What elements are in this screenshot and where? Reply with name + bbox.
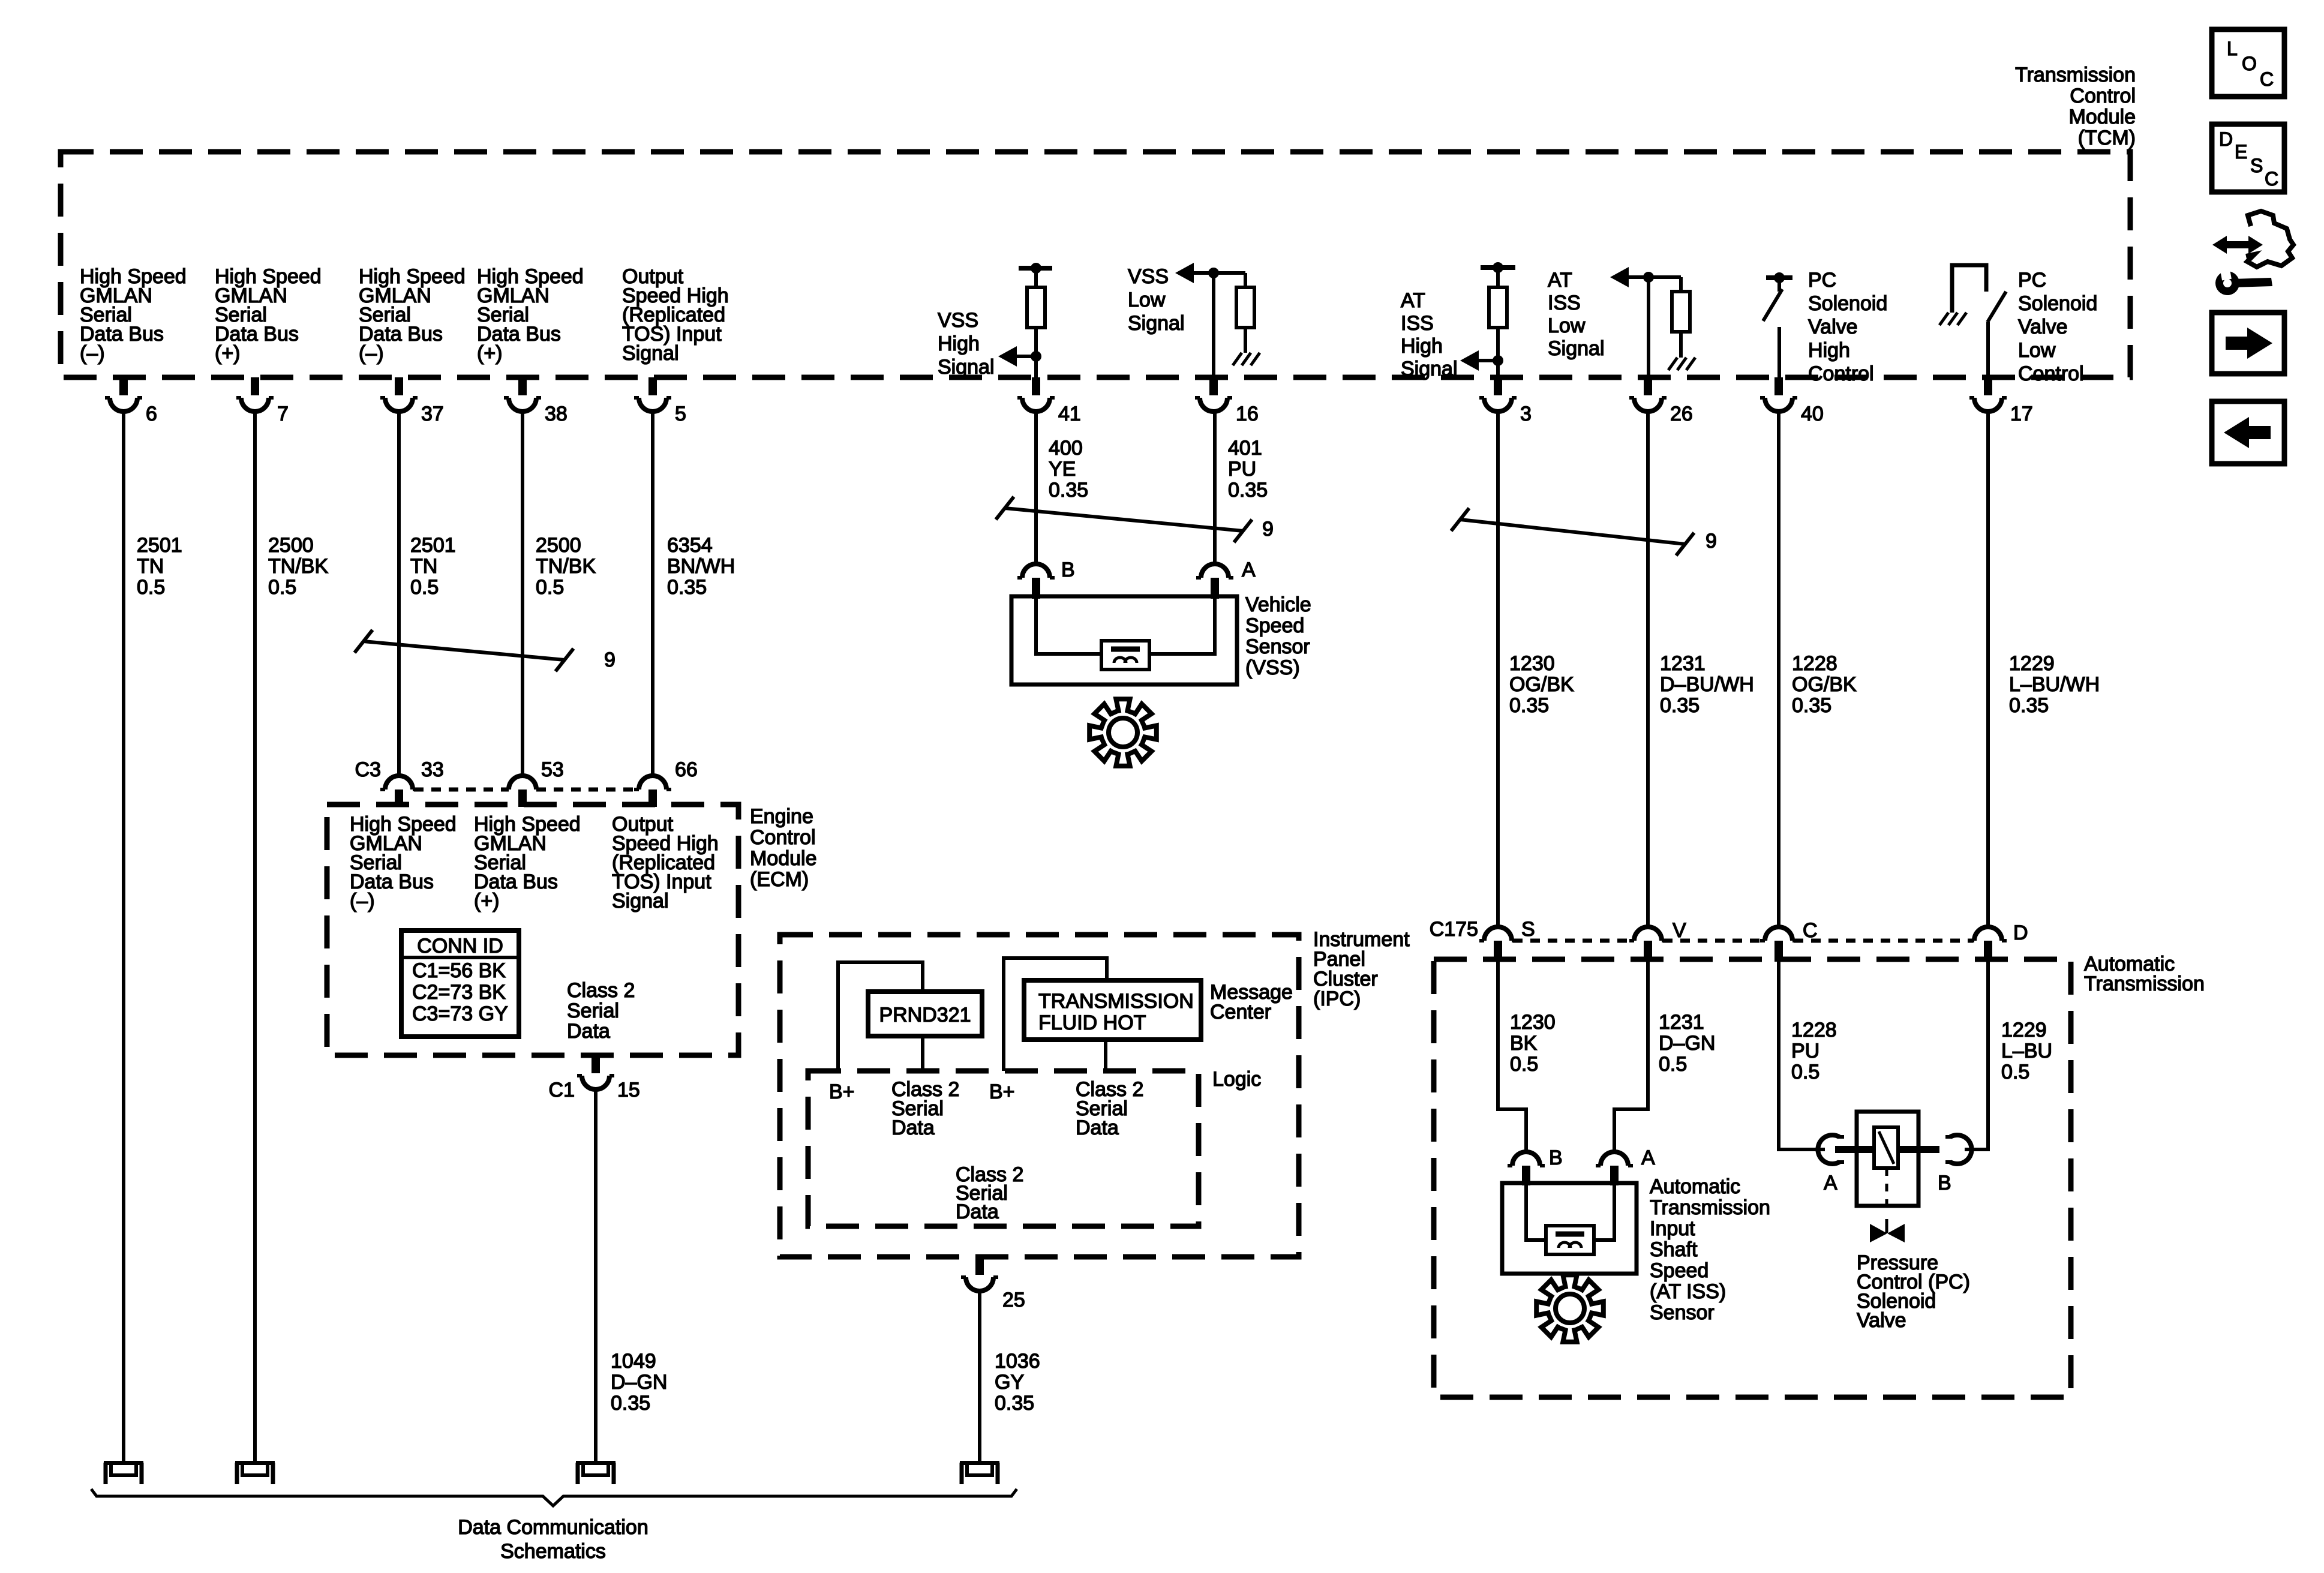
svg-text:ISS: ISS <box>1401 312 1434 335</box>
svg-text:CONN ID: CONN ID <box>417 935 503 957</box>
AT ISS sensor box <box>1502 1183 1637 1274</box>
svg-text:High: High <box>1808 339 1850 362</box>
switch blade (PC high driver) <box>1763 278 1782 321</box>
svg-text:Transmission: Transmission <box>2015 64 2136 86</box>
label: Transmission Control Module (TCM) <box>2015 64 2136 149</box>
svg-text:(+): (+) <box>474 890 500 912</box>
ground strap (PC low driver) <box>1952 265 1986 313</box>
resistor (AT ISS high) <box>1489 287 1507 328</box>
ECM connector 53 <box>504 758 564 807</box>
crossover mark 9 (AT ISS pair) <box>1451 508 1717 556</box>
svg-text:VSS: VSS <box>1128 265 1169 288</box>
TCM pin 17 connector <box>1969 377 2033 425</box>
right arrow legend box <box>2212 313 2284 374</box>
svg-text:16: 16 <box>1236 403 1259 425</box>
label: Pressure Control (PC) Solenoid Valve <box>1857 1251 1970 1332</box>
svg-text:Module: Module <box>2068 106 2136 128</box>
transmission control module (TCM) dashed box <box>61 152 2130 377</box>
wire 400 YE (pin 41 to VSS B) <box>1034 412 1038 564</box>
svg-text:1049: 1049 <box>611 1350 656 1373</box>
svg-text:2501: 2501 <box>410 534 456 557</box>
wire: message center to logic <box>1104 1040 1107 1071</box>
ECM connector 66 <box>634 758 698 807</box>
C175 connector C <box>1760 919 1818 962</box>
svg-text:Speed: Speed <box>1650 1259 1709 1282</box>
svg-text:PU: PU <box>1791 1040 1819 1062</box>
ECM connector C1 pin 15 <box>549 1055 640 1101</box>
svg-text:Transmission: Transmission <box>1650 1196 1770 1219</box>
svg-text:(TCM): (TCM) <box>2078 127 2136 149</box>
wire 1049 D-GN (ECM 15 to splice) <box>594 1089 597 1461</box>
TCM pin 40 connector <box>1760 377 1824 425</box>
TCM pin 41 connector <box>1017 377 1081 425</box>
label: wire 401 PU 0.35 <box>1228 437 1268 502</box>
TCM pin 3 connector <box>1479 377 1532 425</box>
svg-text:6354: 6354 <box>667 534 713 557</box>
svg-text:9: 9 <box>604 649 615 671</box>
gear icon (VSS reluctor) <box>1089 699 1157 766</box>
wire 1230 BK (S to AT ISS B) <box>1498 959 1526 1152</box>
svg-text:0.35: 0.35 <box>1660 694 1700 717</box>
svg-text:1230: 1230 <box>1510 1011 1556 1034</box>
svg-text:Signal: Signal <box>612 890 669 912</box>
svg-text:(–): (–) <box>80 342 105 365</box>
svg-text:OG/BK: OG/BK <box>1792 673 1857 696</box>
svg-text:TN: TN <box>410 555 437 578</box>
svg-text:Control: Control <box>2018 362 2084 385</box>
label: wire 1231 D-GN 0.5 <box>1659 1011 1715 1076</box>
svg-text:PC: PC <box>2018 269 2046 292</box>
svg-text:Data: Data <box>1076 1116 1119 1139</box>
automatic transmission dashed box <box>1434 959 2071 1397</box>
C175 connector S <box>1479 918 1535 962</box>
svg-text:B: B <box>1549 1146 1563 1169</box>
svg-text:2500: 2500 <box>536 534 581 557</box>
svg-text:1231: 1231 <box>1659 1011 1704 1034</box>
wire: PRND321 to logic <box>921 1036 924 1071</box>
label: Automatic Transmission Input Shaft Speed (AT ISS) Sensor <box>1650 1175 1770 1324</box>
label: B+ (message center) <box>989 1080 1015 1103</box>
off-page terminal (wire 1036) <box>960 1461 999 1484</box>
label: Logic <box>1212 1068 1261 1091</box>
resistor (VSS low) <box>1236 287 1254 328</box>
svg-text:0.5: 0.5 <box>536 576 564 599</box>
arrow: AT ISS Low Signal <box>1610 267 1681 287</box>
label: Class 2 Serial Data (ECM) <box>567 979 635 1043</box>
svg-text:TRANSMISSION: TRANSMISSION <box>1038 990 1194 1013</box>
svg-text:C1: C1 <box>549 1079 575 1101</box>
node: VSS high internal terminal bar <box>1019 263 1052 274</box>
label: wire 2501 TN 0.5 (b) <box>410 534 456 599</box>
C175 connector V <box>1629 919 1686 962</box>
node: VSS high junction dot <box>1031 351 1041 362</box>
svg-text:0.5: 0.5 <box>1791 1061 1819 1083</box>
svg-text:A: A <box>1242 559 1256 581</box>
svg-text:TN/BK: TN/BK <box>536 555 596 578</box>
svg-text:Signal: Signal <box>1128 312 1185 335</box>
svg-text:Low: Low <box>1548 314 1586 337</box>
svg-text:C1=56 BK: C1=56 BK <box>412 959 506 982</box>
wire: resistor to ground <box>1244 328 1247 353</box>
label: High Speed GMLAN Serial Data Bus (-) (ECM) <box>350 813 457 912</box>
svg-text:Data: Data <box>956 1200 999 1223</box>
label: VSS Low Signal <box>1128 265 1185 335</box>
svg-text:D–GN: D–GN <box>611 1371 667 1394</box>
resistor (AT ISS low) <box>1672 292 1690 332</box>
svg-text:0.35: 0.35 <box>1792 694 1831 717</box>
svg-text:41: 41 <box>1058 403 1081 425</box>
label: Class 2 Serial Data (logic) <box>956 1163 1023 1223</box>
label: C3 <box>355 758 381 781</box>
svg-text:BK: BK <box>1510 1032 1538 1055</box>
wire 1229 L-BU/WH (pin 17 to C175 D) <box>1986 412 1990 927</box>
svg-text:401: 401 <box>1228 437 1262 460</box>
wire: junction to pin 3 <box>1496 361 1500 377</box>
svg-text:D: D <box>2219 128 2233 150</box>
svg-text:L–BU/WH: L–BU/WH <box>2009 673 2100 696</box>
C175 connector D <box>1969 921 2028 962</box>
label: Class 2 Serial Data (PRND321) <box>891 1078 959 1139</box>
svg-text:66: 66 <box>675 758 698 781</box>
svg-text:3: 3 <box>1520 403 1532 425</box>
svg-text:C3=73 GY: C3=73 GY <box>412 1002 508 1025</box>
svg-text:0.35: 0.35 <box>2009 694 2049 717</box>
svg-text:TN: TN <box>137 555 164 578</box>
svg-text:D–BU/WH: D–BU/WH <box>1660 673 1754 696</box>
svg-text:0.35: 0.35 <box>1509 694 1549 717</box>
label: VSS High Signal <box>938 309 995 379</box>
svg-text:(VSS): (VSS) <box>1245 656 1300 679</box>
TRANSMISSION FLUID HOT display box <box>1024 980 1201 1040</box>
svg-text:L: L <box>2227 38 2238 59</box>
svg-text:PRND321: PRND321 <box>879 1004 971 1026</box>
svg-text:GY: GY <box>995 1371 1024 1394</box>
connector A (VSS) <box>1196 559 1256 599</box>
IPC logic dashed box <box>808 1071 1199 1226</box>
svg-text:1228: 1228 <box>1791 1019 1837 1041</box>
label: B+ (PRND321) <box>829 1080 855 1103</box>
svg-text:OG/BK: OG/BK <box>1509 673 1574 696</box>
label: High Speed GMLAN Serial Data Bus (–) (TCM) <box>359 265 466 365</box>
TCM pin 26 connector <box>1629 377 1693 425</box>
PC solenoid coil element <box>1874 1127 1898 1168</box>
TCM pin 6 connector <box>105 377 157 425</box>
label: High Speed GMLAN Serial Data Bus (+) (TCM) <box>215 265 322 365</box>
svg-text:1229: 1229 <box>2009 652 2055 675</box>
svg-text:AT: AT <box>1401 289 1425 312</box>
svg-text:1036: 1036 <box>995 1350 1040 1373</box>
wire: B+ riser to PRND321 <box>838 962 923 1071</box>
svg-text:VSS: VSS <box>938 309 978 332</box>
DESC legend box <box>2212 124 2284 192</box>
svg-text:53: 53 <box>541 758 564 781</box>
wire 1231 D-GN (V to AT ISS A) <box>1614 959 1648 1152</box>
svg-text:E: E <box>2235 141 2247 163</box>
svg-text:D: D <box>2013 921 2028 944</box>
TCM pin 16 connector <box>1195 377 1259 425</box>
svg-text:Speed: Speed <box>1245 614 1304 637</box>
PRND321 display box <box>868 992 982 1036</box>
svg-text:C175: C175 <box>1430 918 1478 941</box>
LOC legend box <box>2212 29 2284 97</box>
svg-text:9: 9 <box>1706 530 1717 553</box>
arrow: VSS Low Signal <box>1175 263 1245 283</box>
svg-text:0.5: 0.5 <box>1659 1053 1687 1076</box>
svg-text:1230: 1230 <box>1509 652 1555 675</box>
PC solenoid actuator dashed link <box>1885 1168 1888 1213</box>
wire 1228 OG/BK (pin 40 to C175 C) <box>1777 412 1780 927</box>
svg-text:Class 2: Class 2 <box>567 979 635 1002</box>
wire: resistor to ground <box>1679 332 1683 358</box>
svg-text:A: A <box>1824 1172 1837 1194</box>
svg-text:0.5: 0.5 <box>1510 1053 1538 1076</box>
svg-text:Low: Low <box>1128 289 1166 311</box>
label: Vehicle Speed Sensor (VSS) <box>1245 593 1311 679</box>
svg-text:Data: Data <box>567 1020 610 1043</box>
svg-text:0.35: 0.35 <box>995 1392 1034 1415</box>
label: wire 1230 BK 0.5 <box>1510 1011 1556 1076</box>
connector A (AT ISS) <box>1596 1146 1655 1185</box>
service information icon (arrows, connector, wrench) <box>2212 211 2293 297</box>
wire: resistor to junction <box>1496 328 1500 361</box>
ground (VSS low) <box>1233 353 1260 365</box>
svg-text:0.35: 0.35 <box>1228 479 1268 502</box>
svg-text:(+): (+) <box>215 342 241 365</box>
svg-text:B+: B+ <box>989 1080 1015 1103</box>
node: AT ISS high junction dot <box>1493 355 1503 366</box>
resistor (VSS high pull-up) <box>1027 287 1045 328</box>
svg-text:Sensor: Sensor <box>1650 1301 1715 1324</box>
PC solenoid valve box <box>1857 1112 1918 1206</box>
node: PC high terminal bar <box>1766 272 1792 283</box>
svg-text:Signal: Signal <box>938 356 995 379</box>
svg-text:Module: Module <box>750 847 817 870</box>
label: wire 2501 TN 0.5 <box>137 534 182 599</box>
label: Data Communication Schematics <box>458 1516 648 1563</box>
svg-text:0.35: 0.35 <box>667 576 707 599</box>
svg-text:37: 37 <box>421 403 444 425</box>
svg-text:PC: PC <box>1808 269 1836 292</box>
label: AT ISS Low Signal <box>1548 269 1605 360</box>
svg-text:Transmission: Transmission <box>2084 972 2205 995</box>
brace: data communication schematics <box>91 1489 1017 1506</box>
connector B (VSS) <box>1017 559 1075 599</box>
svg-text:Shaft: Shaft <box>1650 1238 1698 1261</box>
wire: bar to resistor <box>1496 268 1500 287</box>
label: wire 1229 L-BU 0.5 <box>2001 1019 2052 1083</box>
ground (AT ISS low) <box>1668 358 1695 370</box>
wire 2501 TN (pin 6) <box>122 412 125 1461</box>
TCM pin 38 connector <box>504 377 568 425</box>
svg-text:C: C <box>2265 168 2278 190</box>
label: High Speed GMLAN Serial Data Bus (–) (TCM) <box>80 265 187 365</box>
svg-text:6: 6 <box>146 403 157 425</box>
svg-text:(AT ISS): (AT ISS) <box>1650 1280 1726 1303</box>
wire: to AT ISS low resistor <box>1679 277 1683 292</box>
svg-text:Control: Control <box>750 826 816 849</box>
vehicle speed sensor (VSS) box <box>1011 596 1237 685</box>
svg-text:C2=73 BK: C2=73 BK <box>412 981 506 1004</box>
wire: VSS low to pin 16 <box>1212 273 1215 377</box>
svg-text:40: 40 <box>1801 403 1824 425</box>
label: wire 6354 BN/WH 0.35 <box>667 534 735 599</box>
svg-text:15: 15 <box>617 1079 640 1101</box>
svg-text:Logic: Logic <box>1212 1068 1261 1091</box>
off-page terminal (wire 2501) <box>104 1461 143 1484</box>
svg-text:Signal: Signal <box>1548 337 1605 360</box>
wire 2501 TN (pin 37 to ECM 33) <box>397 412 401 776</box>
label: AT ISS High Signal <box>1401 289 1458 380</box>
wire: PC high to pin 40 <box>1777 327 1781 377</box>
label: PC Solenoid Valve High Control <box>1808 269 1887 385</box>
TCM pin 37 connector <box>380 377 444 425</box>
IPC connector pin 25 <box>961 1257 1025 1311</box>
wire 401 PU (pin 16 to VSS A) <box>1213 412 1217 564</box>
node: AT ISS high terminal bar <box>1481 262 1515 273</box>
svg-text:Valve: Valve <box>1857 1309 1906 1332</box>
svg-text:B+: B+ <box>829 1080 855 1103</box>
wire: resistor to junction <box>1034 328 1038 356</box>
TCM pin 5 connector <box>634 377 686 425</box>
engine control module (ECM) dashed box <box>327 804 738 1055</box>
svg-text:Engine: Engine <box>750 805 813 828</box>
VSS internal winding wires <box>1036 596 1215 654</box>
svg-text:(IPC): (IPC) <box>1313 987 1361 1010</box>
svg-text:Control: Control <box>1808 362 1874 385</box>
switch blade (PC low driver) <box>1987 292 2006 322</box>
label: wire 1228 OG/BK 0.35 <box>1792 652 1857 717</box>
wire 2500 TN/BK (pin 7) <box>253 412 257 1461</box>
label: Engine Control Module (ECM) <box>750 805 817 891</box>
svg-text:1231: 1231 <box>1660 652 1706 675</box>
label: PC Solenoid Valve Low Control <box>2018 269 2097 385</box>
connector A (PC solenoid) <box>1818 1135 1844 1194</box>
crossover mark 9 (VSS pair) <box>996 497 1274 542</box>
label: wire 2500 TN/BK 0.5 <box>268 534 328 599</box>
svg-text:Solenoid: Solenoid <box>1808 292 1887 315</box>
svg-text:B: B <box>1061 559 1075 581</box>
svg-text:Serial: Serial <box>567 999 619 1022</box>
svg-text:0.5: 0.5 <box>2001 1061 2029 1083</box>
svg-text:Data Communication: Data Communication <box>458 1516 648 1539</box>
svg-text:Low: Low <box>2018 339 2056 362</box>
AT ISS pickup coil <box>1546 1226 1594 1254</box>
node: AT ISS low junction dot <box>1643 272 1654 283</box>
label: wire 1049 D-GN 0.35 <box>611 1350 667 1415</box>
label: Output Speed High (Replicated TOS) Input Signal (ECM) <box>612 813 719 912</box>
svg-text:FLUID HOT: FLUID HOT <box>1038 1011 1146 1034</box>
svg-text:(–): (–) <box>350 890 375 912</box>
left arrow legend box <box>2212 401 2284 464</box>
svg-text:2501: 2501 <box>137 534 182 557</box>
svg-text:400: 400 <box>1049 437 1083 460</box>
svg-text:(–): (–) <box>359 342 384 365</box>
svg-text:Valve: Valve <box>2018 316 2068 338</box>
arrow: VSS High Signal <box>998 346 1036 367</box>
svg-text:0.5: 0.5 <box>268 576 296 599</box>
wire 1231 D-BU/WH (pin 26 to C175 V) <box>1646 412 1650 927</box>
label: wire 1229 L-BU/WH 0.35 <box>2009 652 2100 717</box>
AT ISS internal winding wires <box>1526 1183 1614 1240</box>
svg-text:PU: PU <box>1228 458 1256 481</box>
TCM pin 7 connector <box>236 377 289 425</box>
wire 2500 TN/BK (pin 38 to ECM 53) <box>521 412 524 776</box>
svg-text:S: S <box>2250 155 2263 176</box>
label: Message Center <box>1210 981 1293 1023</box>
svg-text:YE: YE <box>1049 458 1076 481</box>
svg-text:7: 7 <box>277 403 289 425</box>
connector B (PC solenoid) <box>1938 1135 1972 1194</box>
valve symbol <box>1870 1219 1905 1242</box>
svg-text:B: B <box>1938 1172 1951 1194</box>
svg-text:D–GN: D–GN <box>1659 1032 1715 1055</box>
label: wire 1036 GY 0.35 <box>995 1350 1040 1415</box>
svg-text:(+): (+) <box>477 342 503 365</box>
ground (PC low) <box>1939 313 1966 325</box>
wire: PC low to pin 17 <box>1986 322 1990 377</box>
svg-text:O: O <box>2242 53 2257 74</box>
svg-text:33: 33 <box>421 758 444 781</box>
off-page terminal (wire 2500) <box>235 1461 275 1484</box>
label: High Speed GMLAN Serial Data Bus (+) (ECM) <box>474 813 581 912</box>
wire 1036 GY (IPC 25 to splice) <box>978 1291 981 1461</box>
node: VSS low junction dot <box>1208 268 1219 278</box>
svg-text:5: 5 <box>675 403 686 425</box>
arrow: AT ISS High Signal <box>1460 350 1498 371</box>
wire: to VSS low resistor <box>1244 273 1247 287</box>
svg-text:TN/BK: TN/BK <box>268 555 328 578</box>
wire 1229 L-BU (D to solenoid B) <box>1965 959 1988 1149</box>
svg-text:1228: 1228 <box>1792 652 1837 675</box>
svg-text:0.5: 0.5 <box>137 576 165 599</box>
svg-text:BN/WH: BN/WH <box>667 555 735 578</box>
svg-text:A: A <box>1641 1146 1655 1169</box>
svg-text:Control: Control <box>2070 85 2136 107</box>
svg-text:Signal: Signal <box>622 342 679 365</box>
wire: B+ riser to message center <box>1004 958 1107 1071</box>
svg-text:Center: Center <box>1210 1001 1271 1023</box>
svg-text:C: C <box>2260 68 2274 90</box>
svg-text:Solenoid: Solenoid <box>2018 292 2097 315</box>
svg-text:Data: Data <box>891 1116 935 1139</box>
CONN ID table <box>401 930 519 1037</box>
svg-text:C: C <box>1803 919 1818 942</box>
svg-text:V: V <box>1673 919 1686 942</box>
VSS pickup coil <box>1101 641 1149 670</box>
svg-text:Valve: Valve <box>1808 316 1858 338</box>
instrument panel cluster (IPC) dashed box <box>780 935 1299 1257</box>
svg-text:AT: AT <box>1548 269 1572 292</box>
svg-text:26: 26 <box>1670 403 1693 425</box>
svg-text:L–BU: L–BU <box>2001 1040 2052 1062</box>
label: Automatic Transmission <box>2084 953 2205 995</box>
wire: junction to pin 41 <box>1034 356 1038 377</box>
off-page terminal (wire 1049) <box>576 1461 615 1484</box>
svg-text:17: 17 <box>2010 403 2033 425</box>
svg-text:ISS: ISS <box>1548 292 1581 314</box>
svg-text:Signal: Signal <box>1401 358 1458 380</box>
svg-text:1229: 1229 <box>2001 1019 2047 1041</box>
wire: AT ISS low to pin 26 <box>1647 277 1650 377</box>
svg-text:C3: C3 <box>355 758 381 781</box>
label: High Speed GMLAN Serial Data Bus (+) (TCM) <box>477 265 584 365</box>
svg-text:9: 9 <box>1262 518 1274 541</box>
label: wire 400 YE 0.35 <box>1049 437 1088 502</box>
label: wire 1231 D-BU/WH 0.35 <box>1660 652 1754 717</box>
wire 1228 PU (C to solenoid A) <box>1779 959 1825 1149</box>
ECM connector 33 <box>380 758 444 807</box>
svg-text:25: 25 <box>1002 1289 1025 1311</box>
